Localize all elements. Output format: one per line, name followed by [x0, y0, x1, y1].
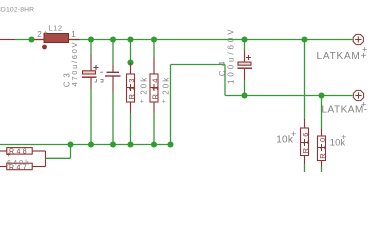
wire R16 upper — [304, 40, 306, 120]
pin number 2 — [37, 30, 42, 39]
svg-text:R10: R10 — [318, 134, 327, 159]
wire L-branch vertical — [170, 65, 172, 145]
value 20k of R13 — [139, 76, 148, 95]
inductor L12 body — [44, 34, 69, 43]
junction dot R13 top rail — [127, 36, 133, 42]
capacitor C4 — [238, 51, 253, 80]
resistor R10 — [318, 129, 326, 168]
junction dot A — [28, 36, 34, 42]
wire R13 lower — [130, 113, 132, 145]
resistor R47 — [0, 163, 46, 170]
pad LATKAM- — [353, 90, 363, 100]
wire R14 upper — [153, 40, 155, 58]
junction dot rail x154 — [151, 141, 157, 147]
cross near 10k R16 — [291, 129, 296, 139]
svg-text:+: + — [361, 100, 366, 110]
label C3 — [63, 70, 72, 88]
wire C4 upper — [244, 40, 246, 52]
label C4 — [218, 57, 227, 76]
capacitor C2 — [105, 65, 121, 93]
wire R10 upper — [321, 96, 323, 129]
junction dot C4 top — [241, 36, 247, 42]
capacitor C3 — [82, 54, 99, 89]
value 10k of R16 — [276, 134, 294, 145]
cross below 20k R14 — [162, 99, 166, 106]
wire C3 upper — [90, 40, 92, 55]
junction dot rail x130 — [127, 141, 133, 147]
wire R14 lower — [153, 113, 155, 145]
junction dot R10 top — [318, 92, 324, 98]
svg-text:LATKAM+: LATKAM+ — [317, 51, 368, 62]
wire top rail — [15, 39, 353, 41]
svg-text:20k: 20k — [139, 76, 148, 95]
svg-text:1: 1 — [71, 30, 76, 39]
svg-text:R16: R16 — [301, 129, 310, 154]
svg-text:+: + — [341, 131, 346, 141]
wire lower right rail — [225, 95, 353, 97]
resistor R16 — [301, 119, 309, 164]
name R16 — [301, 129, 310, 154]
cross below 20k R13 — [140, 99, 144, 106]
name R13 — [127, 75, 136, 100]
name R47 — [9, 164, 29, 171]
wire C2 lower — [112, 93, 114, 145]
junction dot R14 top rail — [151, 36, 157, 42]
origin cross label LATKAM+ — [362, 45, 367, 55]
svg-text:100u/60V: 100u/60V — [226, 27, 235, 84]
name R48 — [9, 149, 29, 156]
wire C3 lower — [90, 89, 92, 145]
svg-text:20k: 20k — [161, 76, 170, 95]
origin cross of L12 — [44, 28, 49, 37]
wire R13 upper — [130, 40, 132, 64]
junction dot R16 top rail — [301, 36, 307, 42]
junction dot C4 bottom — [241, 92, 247, 98]
pin lead off-screen part left edge — [0, 39, 15, 41]
origin cross R10 — [318, 144, 325, 151]
svg-text:470u/60V: 470u/60V — [70, 41, 79, 87]
wire C4 lower — [244, 80, 246, 96]
resistor R13 — [127, 63, 135, 113]
junction dot R13 pin — [127, 59, 133, 65]
tiny label of C2 — [95, 72, 104, 82]
name R10 — [318, 134, 327, 159]
origin cross R48 — [6, 152, 10, 159]
wire L-branch horizontal — [171, 64, 226, 66]
junction dot C3 top — [88, 36, 94, 42]
inductor winding dot — [42, 45, 47, 50]
pad LATKAM+ — [353, 34, 363, 44]
svg-text:R48: R48 — [9, 149, 29, 156]
svg-text:+: + — [162, 99, 166, 106]
cross near 10k R10 — [341, 131, 346, 141]
svg-text:+: + — [6, 152, 10, 159]
junction dot rail x113 — [110, 141, 116, 147]
origin cross R13 — [127, 84, 134, 91]
resistor R14 — [150, 57, 158, 113]
sheet header text — [0, 7, 34, 14]
wire R10 lower — [321, 167, 323, 172]
origin cross R16 — [301, 139, 308, 146]
pin number 1 — [71, 30, 76, 39]
junction dot C2 top — [110, 36, 116, 42]
wire to ground rail horizontal — [46, 157, 71, 159]
label L12 — [49, 24, 63, 33]
svg-text:3D102-8HR: 3D102-8HR — [0, 7, 34, 14]
value 470u/60V — [70, 41, 79, 87]
junction dot rail x170 — [167, 141, 173, 147]
svg-text:+: + — [140, 99, 144, 106]
svg-text:+: + — [291, 129, 296, 139]
value 640k of R47 — [7, 160, 31, 167]
value 10k of R10 — [330, 137, 346, 148]
junction dot rail x70 — [67, 141, 73, 147]
pin 2 lead of L12 — [34, 39, 44, 41]
wire C2 upper — [112, 40, 114, 66]
svg-text:2: 2 — [37, 30, 42, 39]
wire to ground rail vertical — [70, 145, 72, 159]
wire R16 lower — [304, 164, 306, 172]
svg-text:L12: L12 — [49, 24, 63, 33]
svg-text:+: + — [362, 45, 367, 55]
wire right drop to lower rail — [224, 65, 226, 96]
wire bottom ground rail — [0, 144, 171, 146]
label LATKAM- — [322, 104, 368, 115]
wire joining R48 R47 right — [45, 151, 47, 167]
origin cross R14 — [151, 84, 158, 91]
value 100u/60V — [226, 27, 235, 84]
origin cross label LATKAM- — [361, 100, 366, 110]
name R14 — [150, 75, 159, 100]
junction dot rail x91 — [88, 141, 94, 147]
svg-text:640k: 640k — [7, 160, 31, 167]
resistor R48 — [0, 148, 46, 155]
value 20k of R14 — [161, 76, 170, 95]
label LATKAM+ — [317, 51, 368, 62]
pin 1 lead of L12 — [69, 39, 80, 41]
